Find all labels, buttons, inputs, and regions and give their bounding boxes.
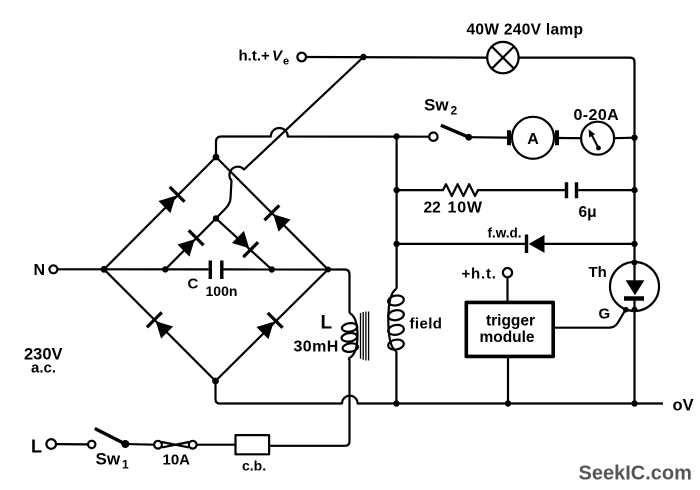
svg-text:Sw: Sw: [96, 450, 121, 469]
label N: [34, 262, 46, 279]
inductor L core bars: [361, 312, 369, 361]
wire fwd row left: [397, 243, 525, 245]
diode D4 bottom-right arm: [255, 313, 283, 341]
meter 0-20A circle with needle: [581, 122, 614, 155]
resistor 22 10W zigzag: [438, 184, 481, 196]
terminal Sw2 fixed contact: [429, 133, 437, 141]
svg-text:1: 1: [122, 458, 129, 472]
watermark SeekIC.com: [579, 463, 692, 485]
label Th: [589, 264, 607, 281]
svg-text:100n: 100n: [206, 283, 238, 299]
fuse 10A (two circles with crossed link): [154, 441, 162, 449]
inductor L bow and loops: [349, 313, 358, 359]
ammeter A terminal bars: [509, 130, 557, 145]
thyristor cathode bar: [624, 296, 644, 301]
node inner left: [162, 266, 168, 272]
label Sw1: [96, 450, 130, 472]
trigger module box: [466, 302, 553, 356]
label G: [599, 306, 611, 323]
node bridge bottom: [212, 378, 219, 385]
bridge side bottom-right: [216, 270, 329, 382]
wire resistor row: [397, 189, 438, 191]
terminal +h.t. circle: [503, 268, 512, 277]
node junction trigger module / 0V rail: [505, 400, 511, 406]
ammeter A circle: [512, 117, 554, 159]
node junction thyristor / 0V rail: [631, 400, 637, 406]
label 22: [424, 200, 441, 217]
wire 0V rail from bridge bottom node (hop over L wire): [216, 381, 664, 404]
svg-text:N: N: [34, 262, 46, 279]
node junction field / 0V rail: [393, 400, 399, 406]
wire capacitor to right node: [224, 268, 329, 270]
inner diode arm right: [216, 218, 272, 269]
thyristor anode line inside: [633, 262, 635, 281]
svg-text:h.t.+: h.t.+: [239, 48, 270, 65]
label 6u: [579, 204, 597, 221]
svg-text:L: L: [31, 437, 42, 457]
node dot thyristor anode: [632, 260, 638, 266]
label L (line terminal): [31, 437, 42, 457]
node dot gate attach: [623, 307, 629, 313]
wire L inductor down to c.b. wire: [269, 359, 349, 446]
node bridge top: [213, 154, 220, 161]
bridge side top-right: [216, 157, 328, 270]
svg-text:2: 2: [451, 104, 458, 118]
wire N terminal to bridge left node: [57, 268, 104, 270]
svg-text:oV: oV: [673, 397, 694, 415]
svg-text:6μ: 6μ: [579, 204, 597, 221]
node junction resistor row right / bus: [631, 187, 637, 193]
wire lamp to right bus corner: [519, 58, 635, 262]
svg-text:trigger: trigger: [486, 313, 535, 330]
node junction fwd row left: [393, 241, 399, 247]
svg-text:SeekIC.com: SeekIC.com: [579, 463, 692, 485]
label L: [321, 313, 333, 334]
node junction fwd row right / bus: [631, 241, 637, 247]
label 30mH: [294, 339, 339, 356]
svg-text:G: G: [599, 306, 611, 323]
node inner top: [213, 215, 219, 221]
wire meter to right bus: [614, 137, 634, 140]
svg-text:10W: 10W: [448, 200, 483, 217]
node junction ht feed: [360, 54, 366, 60]
label C: [188, 276, 199, 293]
wire bridge right node to L inductor: [328, 270, 350, 314]
label h.t.+Ve: [239, 48, 290, 68]
diode D5 inner-left: [176, 230, 204, 258]
label +h.t.: [462, 266, 497, 283]
thyristor Th circle: [610, 262, 659, 311]
diode D3 bottom-left arm: [147, 312, 175, 340]
svg-text:a.c.: a.c.: [31, 360, 56, 377]
label 0-20A: [574, 107, 620, 124]
label c.b.: [242, 458, 266, 474]
wire field winding bottom to 0V rail: [395, 351, 397, 403]
terminal L circle: [46, 439, 56, 449]
node bridge right: [325, 267, 331, 273]
switch Sw1 blade: [95, 429, 126, 445]
wire Sw1 to fuse: [125, 443, 154, 446]
wire +h.t. to trigger module: [506, 277, 508, 300]
wire bridge top node riser and horizontal to Sw2 (hop over diagonal): [216, 128, 429, 157]
label 10A: [163, 452, 191, 469]
svg-text:f.w.d.: f.w.d.: [488, 226, 522, 241]
field winding bow and loops: [388, 289, 396, 352]
diode f.w.d.: [525, 235, 528, 254]
diode D2 top-right arm: [264, 205, 292, 233]
svg-text:+h.t.: +h.t.: [462, 266, 497, 283]
wire capacitor to bus: [578, 189, 634, 191]
inner diode arm left: [165, 218, 216, 269]
label 230V a.c.: [24, 346, 63, 377]
terminal h.t.+Ve circle: [297, 53, 306, 62]
label 40W 240V lamp: [467, 22, 584, 39]
wire ht terminal to lamp (top rail): [306, 56, 487, 59]
lamp circle with X: [487, 42, 518, 73]
capacitor 6u plates: [567, 182, 577, 198]
wire AC bus left node to capacitor: [104, 268, 209, 270]
circuit breaker c.b. box: [236, 435, 270, 454]
diode D6 inner-right: [231, 230, 259, 258]
svg-text:A: A: [527, 131, 539, 148]
label field: [410, 316, 443, 333]
wire trigger module to 0V rail: [507, 356, 509, 403]
wire ht diagonal to bridge inner top (with hop over bridge side): [216, 57, 364, 218]
node junction vertical-drop on Sw2 row: [393, 133, 399, 139]
wire L terminal to Sw1: [56, 443, 88, 445]
node bridge left: [101, 266, 108, 273]
wire Sw2 to ammeter: [469, 136, 508, 139]
wire resistor to capacitor 6u: [481, 189, 565, 191]
capacitor C plates: [210, 261, 222, 280]
svg-text:40W 240V lamp: 40W 240V lamp: [467, 22, 584, 39]
svg-text:field: field: [410, 316, 443, 333]
label 10W: [448, 200, 483, 217]
svg-text:L: L: [321, 313, 333, 334]
svg-text:Sw: Sw: [424, 96, 449, 115]
wire vertical drop to field winding: [396, 137, 398, 289]
svg-text:22: 22: [424, 200, 441, 217]
label Sw2: [424, 96, 458, 118]
node inner right: [269, 266, 275, 272]
wire fuse to c.b.: [197, 444, 236, 446]
svg-text:module: module: [479, 329, 534, 346]
diode D1 top-left arm: [157, 187, 185, 215]
terminal N circle: [49, 265, 57, 273]
node dot thyristor cathode: [632, 307, 638, 313]
wire ammeter to meter: [559, 137, 581, 139]
label f.w.d.: [488, 226, 522, 241]
switch Sw2 blade: [441, 125, 469, 137]
svg-text:C: C: [188, 276, 199, 293]
svg-text:c.b.: c.b.: [242, 458, 266, 474]
label oV: [673, 397, 694, 415]
terminal Sw1 fixed contact: [88, 441, 95, 448]
node junction resistor row left: [393, 187, 399, 193]
thyristor triangle: [626, 280, 645, 295]
bridge side top-left: [104, 157, 216, 269]
bridge side bottom-left: [104, 269, 216, 381]
svg-text:10A: 10A: [163, 452, 191, 469]
wire fwd row right: [545, 243, 635, 245]
thyristor cathode line to 0V rail: [633, 301, 635, 404]
svg-text:30mH: 30mH: [294, 339, 339, 356]
svg-text:Th: Th: [589, 264, 607, 281]
wire gate from trigger module: [555, 312, 625, 328]
svg-text:e: e: [283, 56, 289, 68]
label 100n: [206, 283, 238, 299]
node junction meter row / bus: [631, 135, 637, 141]
